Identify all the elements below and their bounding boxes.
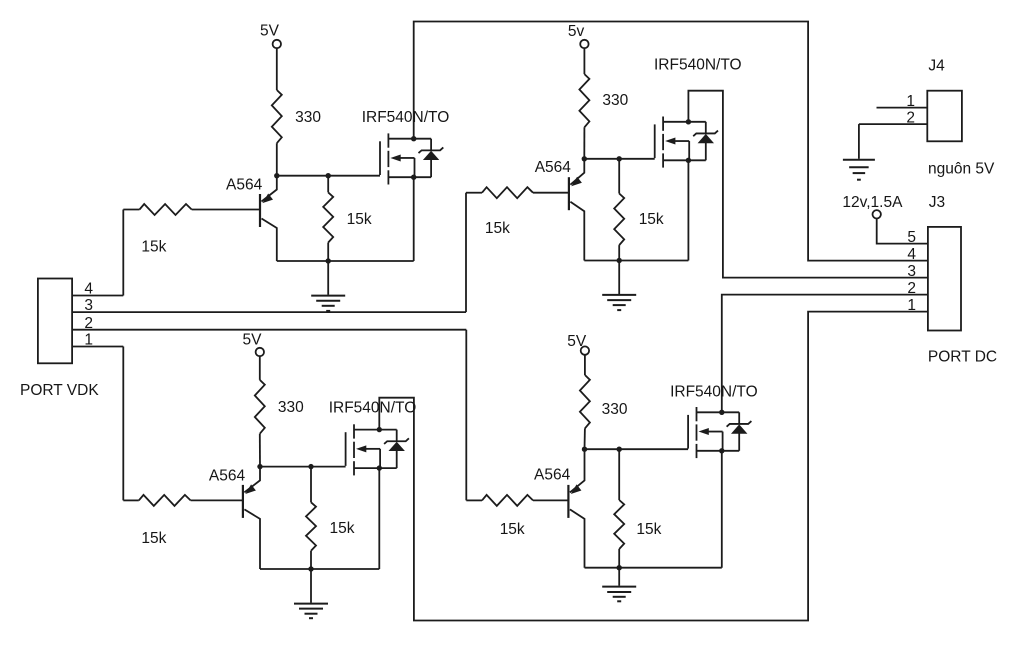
resistor R8 15k (circuit 3 input) [139, 495, 191, 506]
svg-text:J3: J3 [929, 194, 945, 211]
connector J3 body [928, 227, 961, 331]
connector J4 body [927, 91, 962, 142]
resistor R9 15k (circuit 3 pull-up) [306, 502, 316, 551]
svg-text:1: 1 [907, 297, 916, 314]
wire node C2 to R9 [310, 467, 312, 503]
wire R6 to node B1 [583, 127, 585, 159]
wire U3 drain to J3 pin 1 (bottom loop) [379, 312, 928, 621]
power terminal 5V (circuit 4) [581, 346, 589, 354]
ground circuit 2 [618, 261, 620, 295]
svg-text:12v,1.5A: 12v,1.5A [842, 194, 903, 211]
ground circuit 3 [310, 569, 312, 603]
resistor R3 15k (circuit 1 pull-up) [323, 192, 333, 242]
wire R1 to Q1 base [192, 209, 260, 211]
wire R5 left lead [466, 192, 482, 194]
resistor R12 15k (circuit 4 pull-up) [614, 500, 624, 549]
svg-text:330: 330 [295, 109, 321, 126]
MOSFET U3 IRF540N [345, 432, 347, 466]
svg-text:A564: A564 [535, 159, 572, 176]
wire pin4 riser to R1 [122, 210, 124, 296]
svg-text:5V: 5V [243, 332, 263, 349]
wire U4 drain to J3 pin 2 [722, 295, 928, 413]
MOSFET U4 IRF540N [687, 415, 689, 449]
resistor R7 15k (circuit 2 pull-up) [614, 194, 624, 246]
svg-text:IRF540N/TO: IRF540N/TO [670, 383, 758, 400]
ground circuit 1 [327, 261, 329, 295]
resistor R2 330 (circuit 1) [272, 90, 282, 143]
wire node D1 to gate of U4 [585, 448, 689, 450]
svg-text:A564: A564 [226, 177, 263, 194]
svg-text:PORT VDK: PORT VDK [20, 382, 99, 399]
wire R9 to rail [310, 551, 312, 569]
wire emitter rail circuit 3 [260, 568, 379, 570]
svg-text:IRF540N/TO: IRF540N/TO [362, 109, 450, 126]
svg-text:nguôn 5V: nguôn 5V [928, 161, 995, 178]
wire R2 to node A1 [276, 143, 278, 176]
node B2 junction [617, 156, 622, 161]
wire U2 source to rail [687, 160, 689, 260]
wire U1 source to rail [413, 177, 415, 261]
svg-text:A564: A564 [209, 467, 246, 484]
ground circuit 4 [618, 568, 620, 586]
svg-text:330: 330 [602, 92, 628, 109]
power terminal 5V (circuit 1) [273, 40, 281, 48]
svg-text:15k: 15k [485, 220, 510, 237]
node A2 junction [326, 173, 331, 178]
MOSFET U1 IRF540N [379, 141, 381, 175]
wire node C1 to gate of U3 [260, 466, 346, 468]
node rail junction circuit 2 [617, 258, 622, 263]
svg-text:5: 5 [907, 229, 916, 246]
svg-text:4: 4 [907, 246, 916, 263]
transistor Q2 A564 [568, 177, 570, 210]
svg-text:5v: 5v [568, 23, 585, 40]
wire J1 pin 3 to node under C2 input [72, 311, 466, 313]
wire node A2 to R3 [327, 176, 329, 193]
svg-text:15k: 15k [330, 520, 355, 537]
resistor R10 330 (circuit 4) [580, 375, 590, 428]
svg-text:15k: 15k [141, 530, 166, 547]
wire J1 pin 4 stub [72, 295, 123, 297]
connector J1 PORT VDK body [38, 279, 72, 364]
svg-text:3: 3 [84, 297, 93, 314]
svg-text:2: 2 [907, 280, 916, 297]
wire R4 to node C1 [259, 434, 261, 467]
wire 5v to R6 [583, 48, 585, 74]
wire R8 to Q3 base [191, 499, 243, 501]
transistor Q4 A564 [567, 485, 569, 518]
wire J4 pin 2 [859, 123, 927, 125]
svg-text:15k: 15k [347, 211, 372, 228]
svg-text:15k: 15k [141, 239, 166, 256]
wire R5 to Q2 base [533, 192, 569, 194]
node rail junction circuit 1 [326, 258, 331, 263]
wire 12v terminal to J3 pin 5 [877, 219, 928, 244]
wire U4 source to rail [721, 451, 723, 568]
wire pin2 dropper to R11 [465, 330, 467, 501]
svg-text:2: 2 [84, 315, 93, 332]
wire emitter rail circuit 2 [584, 260, 688, 262]
wire node B1 to gate of U2 [584, 158, 654, 160]
wire R3 to rail [327, 243, 329, 262]
wire R1 left lead [123, 209, 139, 211]
wire 5V to R4 [259, 356, 261, 380]
wire R11 left lead [466, 499, 482, 501]
wire emitter rail circuit 4 [585, 567, 722, 569]
svg-text:4: 4 [84, 281, 93, 298]
power terminal 5v (circuit 2) [580, 40, 588, 48]
wire J4 pin 1 [877, 107, 928, 109]
resistor R11 15k (circuit 4 input) [482, 495, 533, 506]
wire R11 to Q4 base [533, 499, 568, 501]
MOSFET U2 IRF540N [654, 124, 656, 158]
wire R8 left lead [123, 499, 139, 501]
svg-text:A564: A564 [534, 467, 571, 484]
wire R7 to rail [618, 245, 620, 260]
svg-text:15k: 15k [639, 211, 664, 228]
svg-text:J4: J4 [928, 57, 945, 74]
svg-text:330: 330 [602, 401, 628, 418]
wire emitter rail circuit 1 [277, 260, 414, 262]
wire J1 pin 1 stub [72, 346, 123, 348]
wire 5V to R2 [276, 48, 278, 90]
wire node A1 to gate of U1 [277, 175, 380, 177]
svg-text:IRF540N/TO: IRF540N/TO [654, 57, 742, 74]
resistor R1 15k (circuit 1 input) [140, 204, 192, 215]
node D1 junction [582, 447, 587, 452]
node C2 junction [308, 464, 313, 469]
svg-text:3: 3 [907, 263, 916, 280]
resistor R6 330 (circuit 2) [579, 74, 589, 127]
ground at J4 [858, 124, 860, 159]
node B1 junction [582, 156, 587, 161]
wire pin1 dropper to R8 [122, 347, 124, 501]
svg-text:15k: 15k [636, 521, 661, 538]
svg-text:15k: 15k [500, 521, 525, 538]
svg-text:1: 1 [906, 93, 915, 110]
svg-text:IRF540N/TO: IRF540N/TO [329, 399, 417, 416]
transistor Q3 A564 [242, 485, 244, 518]
wire node D2 to R12 [618, 449, 620, 500]
wire U1 drain to J3 pin 4 (top rail) [414, 22, 928, 261]
resistor R5 15k (circuit 2 input) [482, 187, 533, 198]
wire U2 drain to J3 pin 3 [688, 91, 928, 278]
power terminal 5V (circuit 3) [256, 348, 264, 356]
resistor R4 330 (circuit 3) [255, 380, 265, 434]
node rail junction circuit 3 [308, 566, 313, 571]
svg-text:330: 330 [278, 399, 304, 416]
wire node B2 to R7 [618, 159, 620, 194]
wire R10 to node D1 [584, 428, 586, 449]
node A1 junction [274, 173, 279, 178]
node D2 junction [617, 447, 622, 452]
wire J1 pin 2 run [72, 329, 466, 331]
transistor Q1 A564 [259, 194, 261, 227]
node C1 junction [257, 464, 262, 469]
svg-text:5V: 5V [260, 23, 280, 40]
wire pin3 riser to R5 [465, 193, 467, 312]
node rail junction circuit 4 [617, 565, 622, 570]
wire 5V to R10 [584, 355, 586, 375]
svg-text:2: 2 [906, 110, 915, 127]
svg-text:1: 1 [84, 332, 93, 349]
svg-text:PORT DC: PORT DC [928, 349, 997, 366]
terminal 12v 1.5A [873, 210, 881, 218]
wire U3 source to rail [378, 468, 380, 569]
wire R12 to rail [618, 549, 620, 568]
